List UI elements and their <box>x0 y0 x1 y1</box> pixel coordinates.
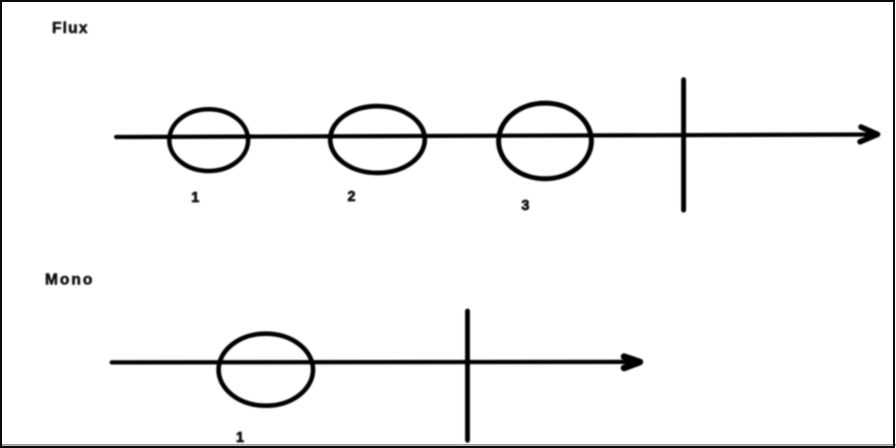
svg-text:2: 2 <box>347 189 355 205</box>
svg-text:Flux: Flux <box>52 20 89 37</box>
loop ellipse 1 (Mono) <box>219 334 313 406</box>
wire mono axis line <box>112 360 634 365</box>
svg-text:3: 3 <box>521 198 529 214</box>
loop ellipse 2 (Flux) <box>330 106 425 173</box>
vertical cut bar (Mono) <box>465 311 470 440</box>
loop ellipse 3 (Flux) <box>499 103 592 179</box>
wire flux axis line <box>116 135 872 138</box>
mono axis arrowhead <box>624 357 640 368</box>
svg-text:Mono: Mono <box>45 271 94 288</box>
loop ellipse 1 (Flux) <box>169 109 248 171</box>
bottom gray rule <box>0 444 896 445</box>
flux axis arrowhead <box>860 127 878 142</box>
svg-text:1: 1 <box>191 190 199 206</box>
vertical cut bar (Flux) <box>681 80 686 211</box>
svg-text:1: 1 <box>236 430 244 446</box>
